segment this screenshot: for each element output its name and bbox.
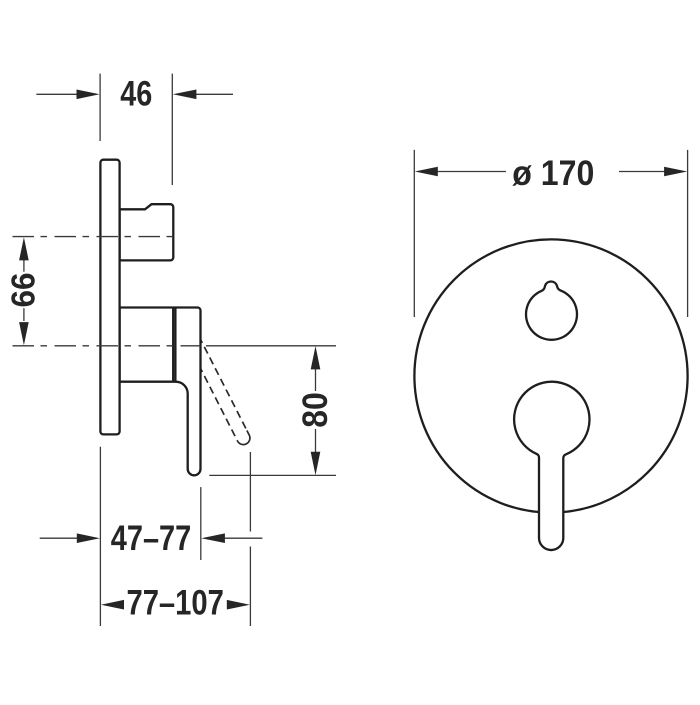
svg-text:77–107: 77–107 [126,582,224,622]
dimension 47-77: extension lines [99,447,101,626]
centerline (diverter axis) [13,236,175,238]
svg-text:46: 46 [120,73,152,113]
dimension 46: left arrow [36,93,78,95]
dimension 47-77: left arrow [40,537,78,539]
dimension 66: dimension line with arrows [23,260,25,272]
front view: lever hub and handle [514,382,589,550]
front view: diverter knob circle with top nub [526,282,577,340]
svg-text:ø 170: ø 170 [512,153,594,193]
dimension d170: extension lines [413,150,415,317]
wall plate (side view) [100,160,119,435]
diverter knob (side view) [120,204,174,260]
dashed lever (tilted position, side view) [188,338,250,444]
dimension 77-107: extension line right [249,452,251,532]
dimension 47-77: right arrow [225,537,263,539]
dimension 46: right arrow [196,93,233,95]
body-handle joint double line [172,308,174,382]
svg-text:80: 80 [295,392,335,428]
dimension 46: extension lines [99,74,101,141]
dimension d170: dimension line with arrows [436,171,506,173]
dimension 80: extension lines [206,345,336,347]
dimension 80: dimension line with arrows [315,369,317,391]
mixer body and lever (side view) [120,308,201,476]
svg-text:66: 66 [5,273,42,308]
centerline (valve axis) [13,345,201,347]
dimension 77-107: arrows [101,600,124,610]
front view: faceplate circle d170 [414,239,687,512]
svg-text:47–77: 47–77 [111,518,192,558]
